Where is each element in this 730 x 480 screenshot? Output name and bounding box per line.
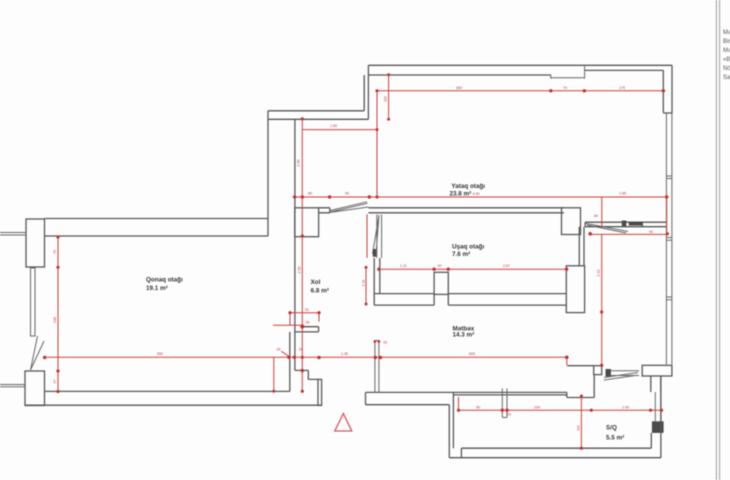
svg-text:S/Q: S/Q	[606, 425, 617, 432]
svg-text:47: 47	[53, 380, 57, 384]
svg-text:30: 30	[438, 264, 442, 268]
svg-text:26: 26	[277, 348, 281, 352]
svg-text:Sahə: Sahə	[723, 75, 730, 81]
svg-text:15: 15	[383, 341, 387, 345]
svg-text:1.90: 1.90	[622, 405, 629, 409]
svg-text:175: 175	[619, 86, 625, 90]
svg-text:1.11: 1.11	[400, 264, 407, 268]
svg-text:Qonaq otağı: Qonaq otağı	[146, 277, 183, 284]
svg-text:2.06: 2.06	[297, 160, 301, 167]
svg-text:26: 26	[306, 321, 310, 325]
svg-text:5.5 m²: 5.5 m²	[606, 434, 624, 441]
svg-text:Uşaq otağı: Uşaq otağı	[452, 244, 484, 251]
svg-text:23.8 m²: 23.8 m²	[450, 190, 472, 197]
svg-text:15: 15	[507, 413, 511, 417]
svg-text:2.22: 2.22	[597, 270, 601, 277]
svg-text:90: 90	[649, 230, 653, 234]
svg-text:600: 600	[469, 352, 475, 356]
svg-text:76: 76	[305, 308, 309, 312]
svg-text:14.3 m²: 14.3 m²	[453, 331, 475, 338]
svg-text:75: 75	[53, 250, 57, 254]
svg-text:75: 75	[563, 86, 567, 90]
svg-text:90: 90	[476, 405, 480, 409]
svg-text:111: 111	[577, 425, 581, 430]
svg-text:6.8 m²: 6.8 m²	[311, 287, 329, 294]
svg-text:Yataq otağı: Yataq otağı	[451, 183, 485, 190]
svg-text:550: 550	[157, 352, 163, 356]
svg-text:1.35: 1.35	[341, 352, 348, 356]
svg-text:110: 110	[384, 96, 388, 102]
svg-text:«Blok: «Blok	[723, 57, 730, 63]
svg-text:2.67: 2.67	[503, 264, 510, 268]
svg-text:Bina: Bina	[723, 39, 730, 45]
svg-text:80: 80	[594, 214, 598, 218]
svg-text:1.11: 1.11	[362, 280, 366, 287]
svg-text:Xol: Xol	[311, 279, 321, 286]
svg-text:19.1 m²: 19.1 m²	[146, 285, 168, 292]
svg-text:15: 15	[299, 348, 303, 352]
svg-text:238: 238	[53, 317, 57, 323]
svg-text:2.50: 2.50	[298, 267, 302, 274]
svg-text:Nömrə: Nömrə	[723, 66, 730, 72]
svg-text:4.90: 4.90	[473, 192, 480, 196]
svg-text:Mənzil: Mənzil	[723, 30, 730, 36]
svg-text:1.65: 1.65	[619, 191, 626, 195]
svg-text:1.83: 1.83	[330, 124, 337, 128]
svg-text:194: 194	[534, 405, 540, 409]
svg-text:Mərtəbə: Mərtəbə	[723, 48, 730, 54]
svg-text:7.6 m²: 7.6 m²	[452, 251, 470, 258]
svg-text:80: 80	[308, 191, 312, 195]
svg-text:360: 360	[456, 86, 462, 90]
svg-text:90: 90	[345, 191, 349, 195]
